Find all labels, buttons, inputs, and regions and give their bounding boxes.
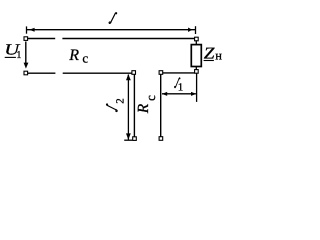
node stub left bottom terminal bbox=[133, 137, 137, 141]
svg-text:с: с bbox=[82, 51, 88, 66]
dimension l1 left arrowhead bbox=[162, 92, 167, 96]
wire l1 right reference line bbox=[196, 73, 198, 102]
label l bbox=[109, 13, 117, 24]
node stub right top terminal bbox=[159, 71, 163, 75]
wire stub right conductor bbox=[160, 74, 162, 136]
svg-text:1: 1 bbox=[16, 50, 21, 61]
svg-text:1: 1 bbox=[178, 82, 184, 94]
dimension l1 right arrowhead bbox=[191, 92, 196, 96]
wire bottom conductor right segment bbox=[163, 72, 195, 74]
wire top conductor left segment bbox=[28, 38, 56, 40]
svg-text:R: R bbox=[135, 103, 152, 114]
wire load bottom lead bbox=[195, 67, 197, 70]
wire top conductor right segment bbox=[62, 38, 194, 40]
dimension l2 bottom arrowhead bbox=[126, 133, 131, 139]
U1 voltage arrow bbox=[25, 42, 27, 64]
svg-text:R: R bbox=[68, 47, 79, 64]
svg-text:с: с bbox=[143, 95, 158, 101]
wire load top lead bbox=[195, 40, 197, 44]
dimension l right tick bbox=[195, 26, 197, 34]
dimension l1 line bbox=[162, 93, 196, 95]
node load bottom terminal bbox=[195, 70, 199, 74]
dimension l left tick bbox=[26, 26, 28, 33]
svg-text:Z: Z bbox=[204, 44, 216, 63]
label Rc stub bbox=[135, 95, 158, 115]
dimension l2 top arrowhead bbox=[126, 74, 131, 80]
resistor Zn load box bbox=[191, 45, 201, 67]
dimension l2 line bbox=[127, 75, 129, 140]
node input bottom terminal bbox=[24, 71, 28, 75]
node load top terminal bbox=[195, 37, 199, 41]
wire stub left conductor bbox=[133, 74, 135, 137]
wire bottom conductor middle segment bbox=[63, 72, 132, 74]
dimension l line bbox=[27, 29, 196, 31]
dimension l2 bottom tick bbox=[124, 139, 132, 141]
node stub left top terminal bbox=[132, 71, 136, 75]
label l1 bbox=[174, 78, 180, 88]
svg-text:н: н bbox=[215, 49, 222, 63]
label Zn bbox=[204, 44, 216, 63]
dimension l left arrowhead bbox=[29, 28, 34, 32]
wire bottom conductor left segment bbox=[28, 72, 56, 74]
label l2 bbox=[106, 98, 126, 111]
node stub right bottom terminal bbox=[159, 137, 163, 141]
node input top terminal bbox=[24, 37, 28, 41]
dimension l right arrowhead bbox=[188, 28, 192, 33]
svg-text:2: 2 bbox=[114, 98, 126, 104]
label U1 bbox=[4, 42, 21, 59]
